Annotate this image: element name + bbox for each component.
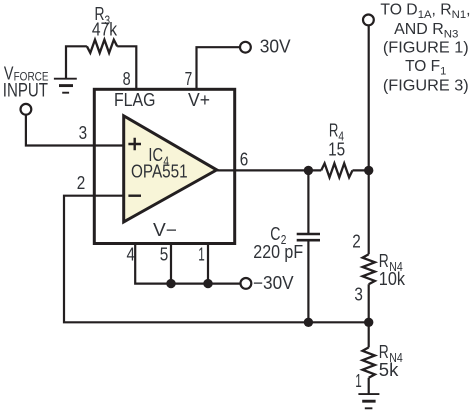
svg-text:8: 8 [123,69,131,89]
svg-text:30V: 30V [260,36,291,56]
svg-text:R: R [379,342,389,362]
svg-text:V+: V+ [188,90,210,110]
svg-text:2: 2 [77,173,86,193]
wire pin 2 (-) feedback to bottom node [64,196,369,323]
junction C2 bottom node [304,318,313,327]
svg-text:7: 7 [185,69,193,89]
wire R3 right / pin 8 FLAG [117,46,136,89]
ground (RN4 5k) [358,394,379,408]
wire pin 5 [170,245,172,284]
svg-text:R: R [329,121,339,141]
wire pin 7 to 30V terminal [197,47,240,89]
svg-text:3: 3 [79,123,88,143]
svg-text:INPUT: INPUT [3,81,49,102]
op-amp - input marker [128,194,141,196]
wire R3 left to ground [66,46,87,78]
junction RN4 divider node [364,318,373,327]
wire RN4 10k to junction [368,284,370,347]
op-amp IC4 OPA551 triangle [124,116,217,222]
svg-text:3: 3 [354,285,363,305]
svg-text:47k: 47k [92,20,118,40]
op-amp + input marker [128,138,141,151]
wire RN4 5k to ground [368,378,370,394]
junction output/R4/C2 node [304,166,313,175]
resistor R4 15 [321,163,352,177]
wire op-amp output pin 6 [217,169,322,171]
svg-text:FLAG: FLAG [114,90,155,110]
wire pin 4 to -30V rail [135,245,240,284]
terminal VFORCE input [21,104,32,115]
svg-text:10k: 10k [379,269,406,289]
svg-text:(FIGURE 1): (FIGURE 1) [383,40,469,57]
ground (VFORCE source) [54,79,77,93]
junction pin 1 [203,279,212,288]
resistor R3 47k [87,40,117,53]
svg-text:R: R [379,251,389,271]
wire C2 bottom branch [307,241,309,322]
wire pin 1 [207,245,209,284]
junction pin 5 [166,279,175,288]
wire R4 right to node [353,169,369,171]
svg-text:5k: 5k [379,360,400,380]
op-amp U1 package outline (IC4) [94,89,234,243]
terminal -30V [241,278,252,289]
svg-text:−30V: −30V [253,273,294,293]
terminal to figure 1 / figure 3 [363,15,374,26]
net label: TO D1A, RN1, AND RN3 (FIGURE 1) TO F1 (FIGURE 3) [380,2,470,95]
svg-text:5: 5 [160,245,169,265]
junction R4/rail node [364,166,373,175]
wire C2 top branch [307,170,309,233]
svg-text:220 pF: 220 pF [253,242,303,262]
wire VFORCE input to pin 3 (+) [26,115,124,145]
svg-text:1: 1 [198,245,205,265]
svg-text:C: C [270,224,280,244]
svg-text:2: 2 [352,232,361,252]
svg-text:V−: V− [153,220,177,240]
svg-text:4: 4 [127,245,136,265]
svg-text:15: 15 [328,140,345,160]
capacitor C2 220 pF [297,234,320,240]
wire top terminal down to R4 node and RN4 [368,26,370,255]
terminal 30V [240,42,251,53]
resistor RN4 5k [363,347,375,377]
svg-text:1: 1 [355,371,362,391]
svg-text:OPA551: OPA551 [131,162,188,182]
svg-text:6: 6 [240,149,249,169]
svg-text:(FIGURE 3): (FIGURE 3) [383,78,469,95]
resistor RN4 10k [363,254,375,284]
